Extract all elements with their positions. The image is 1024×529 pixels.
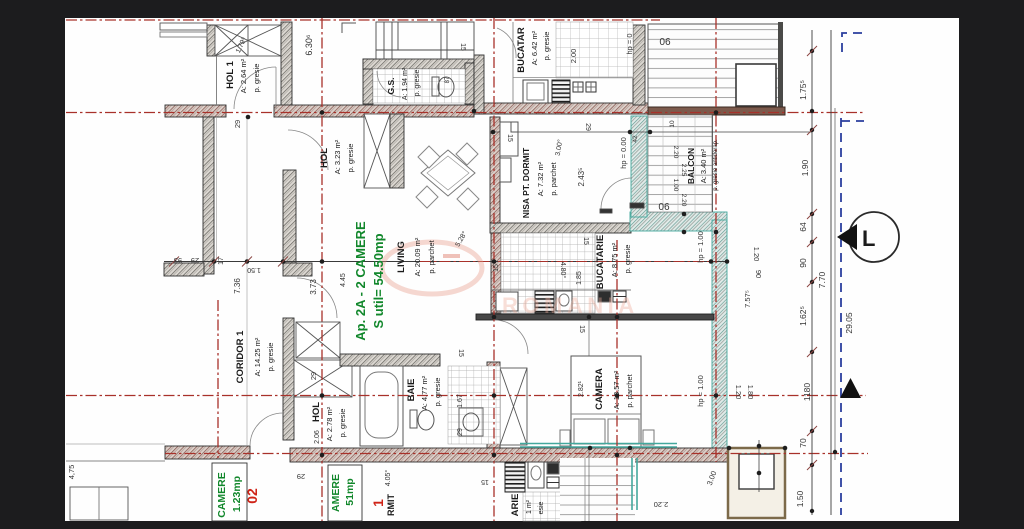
upper kitchen counter: sink unit	[523, 80, 548, 103]
svg-text:1.20: 1.20	[752, 247, 761, 262]
chair SE	[457, 188, 479, 210]
door arc corridor mid	[297, 278, 337, 318]
chair NE	[456, 143, 478, 165]
upper kitchen west edge	[512, 22, 514, 103]
svg-text:3.73: 3.73	[309, 279, 318, 295]
svg-text:ROMANIA: ROMANIA	[502, 293, 639, 318]
svg-text:CAMERE: CAMERE	[216, 472, 228, 518]
svg-text:A: 13.57 m²: A: 13.57 m²	[612, 370, 621, 409]
svg-text:42: 42	[632, 135, 639, 143]
svg-text:90: 90	[659, 35, 671, 46]
svg-text:p. gresie: p. gresie	[542, 32, 551, 61]
svg-text:15: 15	[578, 325, 585, 333]
lower apt teal wall lines	[631, 458, 633, 510]
lower-right neighbour deck lines	[560, 458, 635, 521]
top-right balcony east border	[778, 22, 783, 108]
kitchen west wall	[491, 233, 501, 313]
parapet band over balcony	[648, 107, 785, 115]
door arc camera	[494, 320, 528, 354]
bottom-right terrace	[728, 448, 785, 518]
svg-text:A: 7.32 m²: A: 7.32 m²	[536, 161, 545, 196]
section line mid	[164, 261, 728, 263]
lower apt stove	[505, 462, 525, 492]
nisa closet lower	[500, 158, 511, 182]
svg-text:4.45: 4.45	[340, 273, 347, 287]
svg-text:29: 29	[297, 472, 305, 481]
svg-text:p. gresie antiderap.: p. gresie antiderap.	[713, 139, 719, 191]
wall right of HOL1	[281, 22, 292, 117]
svg-text:2.06: 2.06	[314, 430, 321, 444]
svg-text:p. parchet: p. parchet	[427, 239, 436, 273]
svg-text:NISA PT. DORMIT: NISA PT. DORMIT	[521, 147, 531, 218]
kitchen appliance pair	[598, 291, 611, 302]
apartment tag box 1	[328, 465, 362, 521]
svg-text:29: 29	[584, 123, 591, 131]
dimension chain line 2	[830, 30, 832, 515]
bottom-left boundary line	[66, 460, 165, 462]
balcony left teal wall	[631, 116, 647, 217]
main horizontal wall west segment	[165, 105, 226, 117]
svg-text:15: 15	[582, 237, 589, 245]
svg-text:7.36: 7.36	[233, 278, 242, 294]
stair shaft above G.S.	[376, 22, 474, 59]
BUCATARIE floor tiles	[501, 233, 595, 313]
svg-text:2.20: 2.20	[672, 146, 679, 159]
svg-text:CAMERA: CAMERA	[594, 368, 605, 410]
wall between kitchen and balcony top	[633, 25, 645, 105]
svg-text:A: 14.25 m²: A: 14.25 m²	[253, 337, 262, 376]
svg-text:2.25: 2.25	[680, 164, 687, 177]
svg-text:hp = 1.00: hp = 1.00	[696, 231, 705, 263]
shaft X-box mid	[296, 322, 340, 358]
G.S. room left wall	[363, 59, 373, 104]
svg-text:15: 15	[506, 134, 513, 142]
svg-text:7.57⁵: 7.57⁵	[743, 290, 752, 308]
svg-text:02: 02	[244, 488, 260, 504]
balcony bottom teal wall	[630, 212, 727, 231]
svg-text:4,75: 4,75	[67, 465, 76, 480]
svg-text:29: 29	[309, 372, 318, 380]
svg-text:70: 70	[798, 438, 808, 448]
door arc HOL 3.23	[288, 130, 328, 170]
svg-text:1 m²: 1 m²	[526, 499, 533, 514]
svg-text:hp = 0.00: hp = 0.00	[619, 137, 628, 169]
bed	[571, 356, 641, 448]
svg-text:15: 15	[493, 264, 500, 272]
G.S. room top wall	[363, 59, 474, 69]
svg-text:RMIT: RMIT	[386, 494, 396, 516]
svg-text:29.05: 29.05	[844, 312, 854, 334]
corridor wall jog stub	[283, 263, 312, 276]
door arc corridor bottom	[250, 413, 283, 446]
dimension chain line 3	[834, 108, 836, 460]
svg-text:1.20: 1.20	[734, 385, 743, 400]
balcony light well	[736, 64, 776, 106]
section logo circle	[849, 212, 899, 262]
bottom-left wall band	[165, 446, 250, 459]
boundary navy dashed vertical	[840, 118, 842, 515]
kitchen bottom wall (dark band)	[476, 314, 714, 320]
svg-text:2.00: 2.00	[569, 49, 578, 64]
wall right of shaft X-box	[390, 114, 404, 188]
kitchen BUCATAR floor tiles (top)	[556, 22, 633, 78]
nisa closet upper	[500, 122, 518, 156]
svg-text:90: 90	[754, 270, 763, 278]
red axis vertical 4	[715, 18, 717, 462]
main horizontal wall under G.S.	[474, 103, 660, 114]
red axis horizontal B	[66, 395, 866, 397]
svg-text:p. parchet: p. parchet	[549, 161, 558, 195]
svg-text:1.85: 1.85	[576, 271, 583, 285]
shaft X-box lower (HOL)	[294, 360, 352, 397]
svg-text:1.50: 1.50	[247, 266, 261, 273]
terrace dim line	[758, 440, 760, 492]
red axis vertical 0	[217, 300, 219, 458]
svg-text:A: 2.78 m²: A: 2.78 m²	[325, 406, 334, 441]
main bottom wall	[290, 448, 730, 462]
svg-text:LIVING: LIVING	[396, 241, 407, 273]
balcony plank lines	[662, 115, 664, 211]
svg-text:2.43⁵: 2.43⁵	[577, 168, 586, 187]
upper kitchen stove	[552, 80, 570, 103]
G.S. room right wall	[465, 63, 474, 104]
junction dots	[320, 110, 325, 115]
corridor west wall stub	[164, 263, 204, 276]
svg-text:BUCATARIE: BUCATARIE	[595, 235, 606, 290]
red axis horizontal C	[165, 453, 868, 455]
svg-text:p. parchet: p. parchet	[625, 373, 634, 407]
camera guide line	[588, 317, 590, 521]
svg-text:HOL: HOL	[311, 402, 322, 422]
svg-text:29: 29	[191, 256, 199, 265]
svg-text:2.20: 2.20	[680, 194, 687, 207]
north triangle marker	[840, 378, 861, 398]
svg-text:hp = 0: hp = 0	[625, 33, 634, 54]
bathtub	[360, 366, 403, 446]
svg-text:A: 3.40 m²: A: 3.40 m²	[699, 148, 708, 183]
svg-text:p. gresie: p. gresie	[338, 409, 347, 438]
svg-text:L: L	[862, 226, 875, 251]
BAIE top wall	[340, 354, 440, 366]
dimension chain line 1	[811, 30, 813, 515]
svg-text:1180: 1180	[802, 383, 812, 402]
top-right balcony deck	[648, 24, 779, 108]
svg-text:2.20: 2.20	[654, 500, 669, 509]
svg-text:p. gresie: p. gresie	[623, 245, 632, 274]
svg-text:51mp: 51mp	[344, 478, 356, 505]
svg-text:p. gresie: p. gresie	[414, 69, 421, 96]
kitchen counter line	[491, 289, 631, 291]
dimension slash ticks	[209, 257, 219, 267]
svg-text:CORIDOR 1: CORIDOR 1	[235, 330, 246, 384]
baie sink	[459, 408, 483, 436]
red axis horizontal mid (partial)	[420, 261, 714, 263]
svg-text:15: 15	[457, 349, 464, 357]
svg-text:A: 3.23 m²: A: 3.23 m²	[333, 139, 342, 174]
svg-text:ARIE: ARIE	[510, 494, 521, 517]
G.S. floor tiles	[373, 69, 465, 103]
svg-text:HOL 1: HOL 1	[225, 60, 236, 89]
svg-text:1.62⁵: 1.62⁵	[798, 306, 808, 326]
door arc nisa-balcony	[601, 178, 632, 209]
G.S. toilet	[432, 77, 439, 96]
svg-text:6.30⁶: 6.30⁶	[304, 34, 314, 56]
svg-text:1.67: 1.67	[457, 394, 464, 408]
svg-text:A: 20.09 m²: A: 20.09 m²	[413, 237, 422, 276]
svg-text:87: 87	[445, 76, 451, 83]
svg-text:90: 90	[798, 258, 808, 268]
svg-text:1.80: 1.80	[746, 385, 755, 400]
svg-text:A: 8.75 m²: A: 8.75 m²	[610, 242, 619, 277]
lower apt sink	[528, 462, 544, 488]
nightstand right	[643, 430, 654, 445]
wall left of HOL1 wardrobe	[207, 25, 215, 56]
svg-text:AMERE: AMERE	[330, 474, 342, 512]
section logo arrow	[837, 224, 857, 250]
svg-text:1.90: 1.90	[800, 159, 810, 176]
kitchen sink	[556, 291, 572, 311]
svg-text:64: 64	[798, 222, 808, 232]
svg-text:4.05°: 4.05°	[384, 470, 392, 487]
svg-text:1: 1	[370, 499, 386, 507]
svg-text:17: 17	[218, 257, 225, 265]
red axis vertical 1	[321, 18, 323, 521]
door arc upper small	[497, 28, 516, 58]
HOL1 room side line	[216, 56, 218, 105]
svg-text:A: 1.94 m²: A: 1.94 m²	[402, 67, 409, 100]
kitchen stove	[535, 291, 554, 313]
entry door arc HOL1	[234, 67, 276, 109]
corridor guide line	[246, 117, 248, 446]
svg-text:G.S.: G.S.	[386, 77, 396, 94]
svg-text:1.50: 1.50	[795, 490, 805, 507]
svg-text:4.80°: 4.80°	[559, 262, 567, 279]
central lower wall	[283, 318, 294, 440]
red axis horizontal A	[66, 112, 864, 114]
bottom-left table symbol	[70, 487, 128, 520]
lower balcony deck	[648, 115, 712, 212]
svg-text:10: 10	[669, 120, 676, 128]
shaft X-box right of BAIE	[500, 368, 527, 445]
svg-text:2.82¹: 2.82¹	[578, 380, 585, 397]
svg-text:A: 2.64 m²: A: 2.64 m²	[239, 58, 248, 93]
svg-text:29: 29	[457, 428, 464, 436]
svg-text:1.00: 1.00	[672, 179, 679, 192]
svg-text:p. gresie: p. gresie	[266, 343, 275, 372]
nightstand left	[560, 430, 570, 446]
lower apt appliances	[547, 463, 559, 474]
svg-text:p. gresie: p. gresie	[433, 378, 442, 407]
lower apartment kitchen tiles	[523, 492, 581, 521]
baie toilet	[410, 410, 417, 428]
door arc G.S.	[377, 71, 401, 97]
red axis vertical 2	[493, 18, 495, 521]
kitchen top wall H2	[490, 223, 631, 233]
stair bracket mark	[342, 23, 356, 33]
svg-text:29: 29	[233, 120, 242, 128]
svg-text:Ap. 2A - 2 CAMERE: Ap. 2A - 2 CAMERE	[353, 221, 368, 341]
chair NW	[418, 146, 440, 168]
svg-text:7.70: 7.70	[817, 271, 827, 288]
svg-text:1.23mp: 1.23mp	[231, 476, 243, 512]
dining table	[421, 150, 475, 196]
apartment tag box 02	[212, 463, 247, 521]
red axis vertical 3	[616, 240, 618, 521]
boundary navy corner top	[842, 33, 866, 52]
shaft X-box upper (right of HOL)	[364, 114, 390, 188]
boundary navy stub	[841, 120, 864, 122]
svg-text:S util= 54.50mp: S util= 54.50mp	[371, 233, 386, 328]
svg-text:BUCATAR: BUCATAR	[516, 27, 527, 73]
chair SW	[416, 186, 438, 208]
svg-text:hp = 1.00: hp = 1.00	[696, 375, 705, 407]
svg-text:BAIE: BAIE	[406, 379, 417, 402]
svg-text:HOL: HOL	[319, 148, 330, 168]
svg-text:15: 15	[481, 478, 489, 485]
BAIE east wall	[487, 362, 500, 450]
svg-text:90: 90	[658, 200, 670, 211]
watermark ellipse	[382, 242, 482, 294]
svg-text:93: 93	[174, 256, 182, 265]
top-left bench symbol	[160, 23, 207, 30]
watermark dash	[443, 254, 460, 258]
svg-text:p. gresie: p. gresie	[252, 64, 261, 93]
svg-text:p. gresie: p. gresie	[346, 144, 355, 173]
upper kitchen appliances	[573, 82, 583, 92]
svg-text:esie: esie	[538, 501, 545, 514]
svg-text:A: 4.77 m²: A: 4.77 m²	[420, 375, 429, 410]
svg-text:1.75⁵: 1.75⁵	[798, 80, 808, 100]
east exterior teal wall	[712, 220, 727, 460]
BAIE floor tiles	[448, 366, 500, 444]
svg-text:A: 6.42 m²: A: 6.42 m²	[530, 30, 539, 65]
core wall right of G.S.	[474, 55, 484, 114]
red axis horizontal top	[66, 19, 660, 21]
kitchen fridge	[496, 292, 518, 311]
main horizontal wall center segment	[274, 105, 474, 117]
corridor west wall	[203, 117, 214, 274]
central corridor east wall	[283, 170, 296, 263]
lower balcony edge	[712, 115, 714, 212]
door sill nisa-balcony	[600, 209, 612, 213]
dim line nisa	[490, 131, 812, 133]
svg-text:15: 15	[459, 43, 466, 51]
wardrobe X-box HOL1	[215, 25, 281, 56]
NISA left wall	[490, 117, 500, 223]
